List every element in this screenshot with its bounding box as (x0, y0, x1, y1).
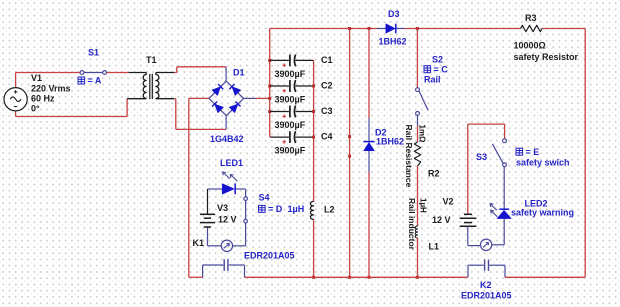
svg-text:safety warning: safety warning (511, 208, 574, 218)
svg-text:L2: L2 (324, 204, 335, 214)
svg-text:EDR201A05: EDR201A05 (461, 290, 512, 300)
svg-text:safety swich: safety swich (516, 157, 570, 167)
svg-text:R3: R3 (525, 13, 537, 23)
svg-text:= D: = D (268, 204, 283, 214)
svg-text:= C: = C (434, 65, 449, 75)
svg-text:= A: = A (88, 76, 102, 86)
svg-text:D1: D1 (233, 68, 245, 78)
svg-text:Rail inductor: Rail inductor (407, 198, 417, 251)
svg-text:10000Ω: 10000Ω (514, 41, 546, 51)
svg-text:3900µF: 3900µF (275, 69, 306, 79)
svg-text:C1: C1 (321, 55, 333, 65)
svg-text:Rail: Rail (424, 75, 441, 85)
svg-text:220 Vrms: 220 Vrms (31, 84, 71, 94)
svg-text:V1: V1 (31, 73, 42, 83)
svg-text:R2: R2 (428, 169, 440, 179)
svg-text:1mΩ: 1mΩ (418, 125, 427, 144)
svg-text:S4: S4 (259, 193, 270, 203)
svg-text:1µH: 1µH (418, 198, 427, 213)
svg-text:1BH62: 1BH62 (376, 136, 404, 146)
svg-text:1G4B42: 1G4B42 (210, 134, 244, 144)
svg-text:3900µF: 3900µF (275, 120, 306, 130)
svg-text:LED1: LED1 (220, 158, 243, 168)
svg-text:12 V: 12 V (218, 215, 237, 225)
svg-text:K1: K1 (193, 238, 205, 248)
svg-text:safety Resistor: safety Resistor (514, 52, 579, 62)
svg-text:60 Hz: 60 Hz (31, 94, 55, 104)
svg-text:1BH62: 1BH62 (379, 37, 407, 47)
svg-text:12 V: 12 V (432, 215, 451, 225)
svg-text:V2: V2 (443, 196, 454, 206)
svg-text:C2: C2 (321, 81, 333, 91)
svg-text:T1: T1 (146, 55, 157, 65)
svg-text:D3: D3 (388, 9, 400, 19)
svg-text:Rail Resistance: Rail Resistance (404, 125, 414, 188)
svg-text:EDR201A05: EDR201A05 (244, 251, 295, 261)
svg-text:C4: C4 (321, 132, 333, 142)
svg-text:3900µF: 3900µF (275, 95, 306, 105)
svg-text:S3: S3 (476, 152, 487, 162)
svg-text:C3: C3 (321, 106, 333, 116)
svg-text:1µH: 1µH (288, 204, 305, 214)
svg-text:L1: L1 (429, 242, 440, 252)
svg-text:= E: = E (526, 147, 540, 157)
svg-text:V3: V3 (217, 203, 228, 213)
svg-text:K2: K2 (480, 280, 492, 290)
svg-text:0°: 0° (31, 104, 40, 114)
svg-text:3900µF: 3900µF (275, 146, 306, 156)
svg-text:S2: S2 (432, 55, 443, 65)
svg-text:S1: S1 (88, 48, 99, 58)
